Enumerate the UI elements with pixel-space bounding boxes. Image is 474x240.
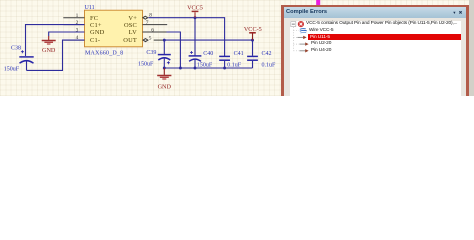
pin 4 C1-: [64, 35, 101, 44]
pin 1 FC: [63, 13, 98, 22]
svg-text:C1+: C1+: [90, 22, 102, 29]
IC U11 body: [85, 10, 143, 47]
capacitor C42: [247, 40, 276, 68]
wire pin3 to ground: [49, 32, 85, 40]
pin icon row3: [297, 36, 303, 38]
svg-text:U11: U11: [85, 5, 95, 11]
tree connector lines: [293, 27, 299, 51]
svg-text:C40: C40: [203, 51, 213, 57]
svg-text:GND: GND: [158, 84, 172, 91]
svg-text:C39: C39: [146, 50, 156, 56]
svg-text:150uF: 150uF: [138, 62, 154, 68]
pin 7 OSC: [124, 20, 167, 29]
junction bus-C40: [194, 67, 197, 70]
wire VCC tap down to C40: [194, 18, 196, 56]
wire pin4 to C38 bottom: [27, 40, 85, 70]
capacitor C38: [4, 46, 34, 73]
svg-text:OSC: OSC: [124, 22, 137, 29]
wire pin8 V+ rail: [149, 18, 225, 57]
expand box: [290, 22, 295, 27]
svg-text:C1-: C1-: [90, 37, 100, 44]
value label MAX660_D_8: [85, 51, 123, 57]
capacitor C41: [219, 51, 243, 69]
designator U11: [85, 5, 95, 11]
svg-text:150uF: 150uF: [4, 66, 20, 72]
svg-text:GND: GND: [90, 29, 105, 36]
pin 6 LV: [129, 27, 167, 36]
svg-text:C38: C38: [11, 46, 21, 52]
svg-text:VCC5: VCC5: [187, 4, 203, 11]
svg-text:LV: LV: [129, 29, 138, 36]
svg-text:GND: GND: [42, 47, 56, 54]
junction OUT end / VCC-5 / C42: [251, 39, 254, 42]
svg-text:1: 1: [76, 13, 79, 19]
error icon: [297, 21, 303, 27]
ground GND near U11: [42, 41, 56, 54]
svg-text:C42: C42: [262, 51, 272, 57]
selected row highlight: [308, 34, 461, 40]
junction C39 tap: [163, 39, 166, 42]
power VCC-5 (right): [244, 26, 262, 40]
junction bus-C41: [223, 67, 226, 70]
junction at VCC-5 tap: [194, 16, 197, 19]
svg-text:C41: C41: [234, 51, 244, 57]
pin 8 V+: [128, 12, 152, 22]
wire OUT net: [163, 39, 253, 41]
power VCC-5 (left): [187, 4, 203, 17]
svg-text:OUT: OUT: [123, 37, 137, 44]
pin 5 OUT: [123, 35, 163, 44]
pin icon row4: [299, 43, 305, 45]
ground GND below C39: [157, 68, 171, 91]
pin 2 C1+: [64, 20, 102, 29]
highlighted wire (magenta) top: [316, 0, 320, 5]
wire icon row2: [299, 27, 305, 30]
svg-text:0.1uF: 0.1uF: [262, 63, 277, 69]
ground bus wire: [164, 67, 252, 69]
capacitor C39: [138, 40, 171, 68]
svg-text:6: 6: [151, 27, 154, 33]
svg-text:MAX660_D_8: MAX660_D_8: [85, 51, 123, 57]
svg-text:7: 7: [146, 20, 149, 26]
junction bus-C39/GND: [163, 67, 166, 70]
pin 3 GND: [64, 27, 105, 36]
capacitor C40: [189, 51, 214, 69]
svg-text:VCC-5: VCC-5: [244, 26, 262, 33]
svg-text:5: 5: [149, 35, 152, 41]
pin icon row5: [299, 50, 305, 52]
junction bus-LV: [179, 67, 182, 70]
wire pin6 LV down to ground bus: [167, 32, 181, 68]
wire pin2 to C38 top: [26, 25, 85, 56]
